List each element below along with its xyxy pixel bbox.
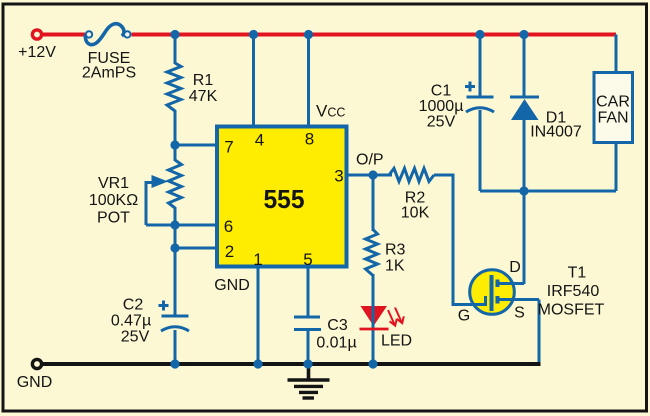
node D1-fan junction xyxy=(519,186,528,195)
svg-text:4: 4 xyxy=(255,131,264,150)
svg-text:POT: POT xyxy=(97,210,130,227)
D1 label xyxy=(530,110,582,141)
wire pin4 to rail xyxy=(252,35,255,127)
node rail-pin4 xyxy=(249,30,258,39)
ground symbol xyxy=(288,364,330,398)
node O/P junction xyxy=(368,170,377,179)
svg-text:47K: 47K xyxy=(189,88,218,105)
wire pin2 tap xyxy=(175,247,217,250)
load CAR FAN xyxy=(594,35,633,192)
wire bottom of C1/D1/fan xyxy=(480,190,616,193)
svg-text:2AmPS: 2AmPS xyxy=(82,65,136,82)
wire left vertical branch xyxy=(174,35,177,365)
svg-text:C2: C2 xyxy=(123,297,144,314)
fuse label xyxy=(82,50,136,82)
svg-text:VR1: VR1 xyxy=(98,175,129,192)
svg-text:C3: C3 xyxy=(327,317,348,334)
T1 label xyxy=(538,265,605,319)
svg-text:7: 7 xyxy=(224,138,233,157)
node rail-R1 xyxy=(170,30,179,39)
C1 label xyxy=(419,83,464,131)
svg-text:0.01µ: 0.01µ xyxy=(316,335,356,352)
svg-text:3: 3 xyxy=(334,167,343,186)
capacitor C2 xyxy=(159,301,190,332)
VR1 label xyxy=(89,175,138,227)
svg-text:CAR: CAR xyxy=(596,94,630,111)
capacitor C3 xyxy=(294,317,321,364)
wire +12V red rail xyxy=(41,33,616,37)
R3 label xyxy=(385,242,406,275)
node pin7 junction xyxy=(170,140,179,149)
svg-text:LED: LED xyxy=(381,333,412,350)
LED D2 xyxy=(360,274,404,364)
svg-text:8: 8 xyxy=(305,130,314,149)
capacitor C1 xyxy=(465,35,494,192)
svg-text:T1: T1 xyxy=(568,265,587,282)
svg-text:MOSFET: MOSFET xyxy=(538,302,605,319)
svg-text:5: 5 xyxy=(303,250,312,269)
potentiometer VR1 xyxy=(146,160,182,225)
svg-text:6: 6 xyxy=(224,217,233,236)
terminal GND xyxy=(32,359,41,368)
svg-text:IN4007: IN4007 xyxy=(530,124,582,141)
node rail-pin8 xyxy=(304,30,313,39)
node rail-D1 xyxy=(519,30,528,39)
svg-text:C1: C1 xyxy=(431,83,452,100)
svg-text:1K: 1K xyxy=(385,258,405,275)
CAR FAN label xyxy=(596,94,630,127)
node pin2 junction xyxy=(170,243,179,252)
svg-text:O/P: O/P xyxy=(356,152,384,169)
wire pin7 tap xyxy=(175,144,217,147)
node rail-C1 xyxy=(475,30,484,39)
wire pin1 to ground rail xyxy=(257,267,260,364)
svg-text:25V: 25V xyxy=(427,114,456,131)
node gnd-pin1 xyxy=(253,359,262,368)
svg-text:G: G xyxy=(458,308,470,325)
wire source to ground rail xyxy=(538,300,541,365)
wire pin6 tap with wiper xyxy=(146,224,217,227)
svg-text:25V: 25V xyxy=(121,329,150,346)
svg-text:+12V: +12V xyxy=(18,44,56,61)
resistor R1 xyxy=(167,63,181,111)
R1 label xyxy=(189,72,218,105)
svg-text:555: 555 xyxy=(264,184,305,214)
transistor T1 MOSFET xyxy=(470,270,539,315)
svg-text:IRF540: IRF540 xyxy=(547,283,600,300)
svg-text:GND: GND xyxy=(214,277,250,294)
wire ground rail xyxy=(41,362,541,366)
node gnd-C2 xyxy=(170,359,179,368)
wire pin8 to rail xyxy=(307,35,310,127)
C2 label xyxy=(111,297,151,346)
svg-text:1: 1 xyxy=(253,250,262,269)
svg-text:2: 2 xyxy=(225,242,234,261)
diode D1 xyxy=(510,35,539,285)
R2 label xyxy=(401,190,430,222)
IC 555 xyxy=(217,127,347,267)
resistor R3 xyxy=(366,175,378,305)
svg-text:R1: R1 xyxy=(193,72,214,89)
svg-text:FAN: FAN xyxy=(597,110,628,127)
svg-text:0.47µ: 0.47µ xyxy=(111,313,151,330)
resistor R2 xyxy=(389,168,470,304)
node gnd-LED xyxy=(368,359,377,368)
svg-text:100KΩ: 100KΩ xyxy=(89,192,138,209)
node pin6 junction xyxy=(170,220,179,229)
wire pin5 to C3 xyxy=(307,267,310,316)
svg-text:1000µ: 1000µ xyxy=(419,98,464,115)
svg-text:S: S xyxy=(514,305,525,322)
fuse F1 xyxy=(85,24,130,45)
node gnd-C3 xyxy=(303,359,312,368)
svg-text:D: D xyxy=(509,259,521,276)
terminal +12V xyxy=(32,30,41,39)
svg-text:GND: GND xyxy=(17,374,53,391)
C3 label xyxy=(316,317,356,352)
svg-text:R3: R3 xyxy=(385,242,406,259)
wire pin3 output xyxy=(347,174,392,177)
svg-text:10K: 10K xyxy=(401,205,430,222)
